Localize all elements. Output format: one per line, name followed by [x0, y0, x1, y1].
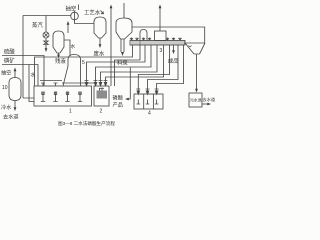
wire: product line P2 to tank B [148, 45, 179, 91]
wire: slurry feed from box2 up to filter arch [115, 60, 141, 86]
valve V1 circle with X [43, 32, 49, 38]
svg-text:产品: 产品 [113, 101, 123, 109]
agitator A1 [41, 92, 45, 102]
svg-text:抽空: 抽空 [66, 5, 77, 13]
condenser C1 (barometric condenser) [94, 17, 106, 38]
svg-text:工艺水: 工艺水 [84, 9, 101, 17]
wire: cooler vent up [123, 3, 125, 18]
filter feed arch [140, 30, 147, 61]
arrow: product acid offtake [173, 45, 175, 51]
wire: vent arrow up from vessel 10 [14, 70, 16, 78]
wash nozzle N4 [148, 38, 151, 41]
arrow: process water [101, 11, 104, 15]
wire: filtrate return L1 (long) [34, 45, 132, 86]
wash nozzle N7 [179, 38, 182, 41]
motor M2 [54, 83, 58, 86]
svg-text:蒸汽: 蒸汽 [32, 21, 43, 29]
seal pot vessel 10 [9, 78, 21, 101]
svg-text:水: 水 [71, 43, 76, 49]
wash nozzle N2 [136, 38, 139, 41]
belt filter 3 [130, 41, 185, 46]
pump in tank A [137, 100, 141, 105]
svg-text:2: 2 [100, 109, 103, 115]
agitator A4 [78, 92, 82, 102]
svg-text:5: 5 [82, 60, 85, 66]
wire: vacuum header top-left [23, 16, 71, 99]
wire: hopper discharge to pond [196, 54, 198, 90]
waste water pond box [189, 93, 202, 107]
wire: feed box vent with up arrow [159, 7, 161, 31]
wire: pump to condenser [75, 20, 95, 24]
scrubber T1 (column) [53, 31, 64, 53]
arrow: steam down [45, 47, 47, 49]
svg-text:废水: 废水 [94, 50, 105, 58]
arrow down from column [57, 55, 60, 59]
pump in tank B [146, 100, 150, 105]
wire: vent with up arrow x111 [110, 7, 112, 86]
wash nozzle N5 [166, 38, 169, 41]
pump P1 (vacuum pump) [71, 12, 79, 20]
wire: sulfuric acid feed [2, 56, 44, 87]
wire: column side to vessel5 [64, 40, 70, 56]
product tanks 4 [134, 94, 163, 109]
svg-text:3: 3 [160, 48, 163, 54]
svg-text:10: 10 [2, 85, 8, 91]
pump block inside [97, 91, 108, 99]
arrow: pond outlet [202, 103, 208, 105]
svg-text:去水道: 去水道 [3, 113, 19, 121]
svg-text:4: 4 [148, 111, 151, 117]
agitator A3 [65, 92, 69, 102]
svg-text:1: 1 [69, 109, 72, 115]
wire: filtrate return L3 [96, 45, 152, 83]
svg-text:图3—8 二水法磷酸生产流程: 图3—8 二水法磷酸生产流程 [58, 120, 115, 127]
wire: filtrate return L2 [87, 45, 146, 83]
wire: filtrate return L4 [101, 45, 158, 83]
valve V2 bowtie [44, 38, 48, 47]
svg-text:磷矿: 磷矿 [4, 57, 15, 65]
svg-text:去水道: 去水道 [203, 96, 216, 103]
extraction tank 1 [34, 86, 92, 106]
pump box 2 [94, 86, 109, 106]
svg-text:硫酸: 硫酸 [4, 48, 15, 56]
wire: steam drop line [45, 16, 47, 33]
svg-text:冷水: 冷水 [1, 103, 12, 111]
gypsum hopper [185, 43, 205, 54]
wire: tank top texture lines [40, 81, 94, 84]
motor M1 [41, 83, 45, 86]
wire: cooler overhead line to hopper [132, 27, 205, 43]
agitator A2 [53, 92, 57, 102]
wash nozzle N6 [172, 38, 175, 41]
svg-text:残液: 残液 [55, 57, 66, 65]
wire: branch to seal tank [29, 65, 34, 102]
svg-text:抽空: 抽空 [1, 69, 11, 77]
wire: filtrate return L5 [106, 45, 164, 83]
filter feed box [155, 31, 167, 41]
wash nozzle N1 [130, 38, 133, 41]
wire: vessel10 drain [14, 101, 16, 109]
wire: rock powder feed [2, 65, 38, 87]
wire: phosphoric acid offtake to label [128, 68, 131, 100]
svg-text:污水池: 污水池 [190, 98, 202, 103]
pump in tank C [155, 100, 159, 105]
roller dots on hopper rim [189, 46, 192, 48]
wire: product line P3 to tank C [157, 45, 184, 91]
wash nozzle N3 [142, 38, 145, 41]
svg-text:成品: 成品 [168, 57, 178, 65]
wire: cooler slurry double downpipe [121, 39, 124, 52]
wire: column vent arrow up [67, 23, 69, 33]
wire: product line P1 to tank A [138, 45, 169, 91]
vessel 5 (cooler return receiver) [63, 55, 81, 87]
svg-text:磷酸: 磷酸 [113, 94, 124, 102]
vacuum cooler E1 [116, 18, 132, 39]
wire: condenser tail pipe [99, 38, 101, 45]
